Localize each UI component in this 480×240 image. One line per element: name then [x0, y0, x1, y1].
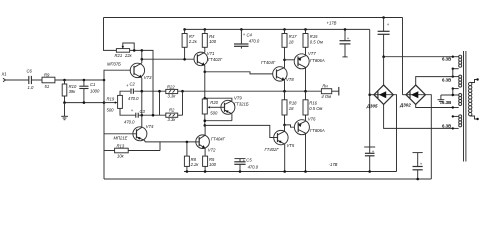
node D305 left: [368, 93, 371, 96]
wire center tap to ground: [441, 94, 453, 96]
svg-text:VT8: VT8: [286, 77, 294, 82]
svg-text:МП37Б: МП37Б: [107, 62, 121, 67]
wire VT3 collector to VT1 base: [142, 58, 194, 60]
winding W3 6.3V: [442, 94, 462, 109]
potentiometer R19: [104, 95, 122, 112]
node upper wire cap383: [382, 16, 385, 19]
resistor R13: [104, 142, 160, 159]
svg-text:VT6: VT6: [308, 116, 316, 121]
output bus wire: [120, 91, 321, 95]
svg-text:4 Ом: 4 Ом: [321, 94, 331, 99]
node VT2 collector: [204, 124, 207, 127]
wire VT1 emitter down to bias network: [204, 72, 206, 99]
ground transformer: [438, 95, 445, 103]
node R4 top: [204, 28, 207, 31]
svg-text:ГТ321Б: ГТ321Б: [234, 102, 249, 107]
transistor VT7: [294, 51, 325, 91]
wire upper rail: [104, 17, 403, 19]
svg-text:500: 500: [210, 110, 218, 115]
wire +17 rail end down: [369, 29, 371, 147]
svg-text:0.5 Ом: 0.5 Ом: [309, 106, 322, 111]
wire cap383 down to bridge D305: [383, 57, 385, 86]
transistor VT8: [273, 60, 295, 91]
capacitor C4: [234, 29, 260, 48]
node VT3 collector base junction: [141, 58, 144, 61]
node VT7 collector bus: [304, 90, 307, 93]
svg-text:VT2: VT2: [208, 147, 216, 152]
svg-text:VT5: VT5: [287, 143, 295, 148]
svg-text:R9: R9: [44, 72, 50, 77]
wire C6 to R9: [31, 79, 42, 81]
+17V rail: [185, 28, 370, 30]
node R7 bottom: [183, 58, 186, 61]
svg-text:R16: R16: [309, 100, 317, 105]
node R21 wiper: [133, 49, 136, 52]
wire R19 bottom to C3: [120, 108, 136, 115]
svg-text:C6: C6: [27, 69, 33, 74]
svg-text:2.2к: 2.2к: [188, 39, 198, 44]
potentiometer R20: [202, 99, 221, 115]
node VT7 base: [283, 59, 286, 62]
svg-text:R20: R20: [210, 100, 218, 105]
wire VT4 emitter to VT2 base: [145, 141, 196, 143]
node VT6 base: [283, 124, 286, 127]
wire D302 bottom to winding3: [416, 104, 453, 107]
node R20 bottom: [204, 119, 207, 122]
svg-text:Rн: Rн: [322, 83, 328, 88]
node C1 bottom: [83, 101, 86, 104]
node cap369 rail: [368, 170, 371, 173]
svg-text:C5: C5: [246, 157, 252, 162]
resistor R17: [282, 29, 297, 59]
wire R9 to input node: [55, 79, 104, 81]
svg-text:18: 18: [289, 106, 294, 111]
svg-text:Д305: Д305: [366, 103, 378, 108]
potentiometer R21: [115, 43, 135, 58]
svg-text:0.5 Ом: 0.5 Ом: [310, 39, 323, 44]
node VT5 emitter rail: [283, 170, 286, 173]
transistor VT3: [107, 50, 152, 91]
svg-text:6.3В: 6.3В: [442, 124, 451, 129]
svg-text:ГТ806А: ГТ806А: [310, 58, 325, 63]
svg-text:22к: 22к: [124, 53, 133, 58]
resistor R15: [303, 29, 323, 55]
svg-text:VT1: VT1: [207, 51, 215, 56]
resistor Rn load: [321, 83, 338, 99]
svg-text:VT3: VT3: [144, 75, 152, 80]
capacitor C1: [79, 79, 100, 103]
transistor VT5: [265, 125, 295, 172]
resistor R18: [282, 91, 297, 125]
svg-text:VT7: VT7: [308, 51, 316, 56]
transistor VT6: [294, 116, 324, 171]
svg-text:1.0: 1.0: [28, 85, 34, 90]
wire R21 right down to C3 node: [130, 50, 153, 115]
svg-text:10к: 10к: [117, 154, 125, 159]
svg-text:МП21Е: МП21Е: [114, 135, 128, 140]
wire VT1 emitter to VT8 base: [205, 72, 273, 74]
svg-text:X1: X1: [1, 72, 7, 77]
node VT3 collector top: [141, 49, 144, 52]
node input to vertical: [103, 79, 106, 82]
node C3 junction: [141, 114, 144, 117]
wire D302 right to loop: [425, 95, 431, 179]
wire W2 bottom to W3 top junction: [452, 89, 454, 95]
svg-text:39к: 39к: [69, 89, 77, 94]
svg-text:ГТ402Г: ГТ402Г: [208, 57, 223, 62]
wire VT6 base: [285, 125, 295, 127]
resistor R4: [202, 29, 216, 52]
node R21 leg junction: [152, 114, 155, 117]
capacitor C2: [126, 81, 139, 101]
svg-text:R22: R22: [167, 84, 175, 89]
node R8 bottom rail: [186, 170, 189, 173]
svg-text:R21: R21: [115, 53, 123, 58]
node cap417 loop: [416, 178, 419, 181]
svg-text:R13: R13: [117, 143, 125, 148]
capacitor top x383: [378, 18, 390, 57]
wire input to C6: [6, 79, 29, 81]
-17V rail: [184, 171, 397, 173]
node R10 bottom: [63, 101, 66, 104]
wire cap383 to winding1: [384, 56, 453, 58]
wire C3 to R2: [138, 114, 166, 116]
transistor VT1: [194, 51, 223, 72]
wire D305 bottom to winding4: [384, 104, 453, 128]
winding W2 6.3V: [442, 75, 462, 90]
transistor VT4: [104, 115, 154, 142]
svg-text:R15: R15: [310, 34, 318, 39]
wire D302 top to winding junction: [416, 77, 453, 85]
svg-text:R17: R17: [289, 34, 297, 39]
svg-text:470.0: 470.0: [249, 39, 260, 44]
node input junction: [63, 79, 66, 82]
wire to VT5 base: [205, 125, 274, 137]
node VT1 emitter: [204, 71, 207, 74]
svg-text:470.0: 470.0: [128, 96, 139, 101]
svg-text:470.0: 470.0: [124, 120, 135, 125]
svg-text:-17В: -17В: [329, 162, 338, 167]
svg-text:ГТ402Г: ГТ402Г: [265, 147, 280, 152]
connector X1: [1, 72, 7, 82]
bridge rectifier D305: [366, 85, 394, 108]
capacitor C3: [124, 108, 146, 124]
wire bottom input: [65, 102, 105, 104]
svg-text:C1: C1: [90, 82, 95, 87]
node VT3 emitter bus: [141, 90, 144, 93]
node cap345 rail: [344, 28, 347, 31]
bridge rectifier D302: [399, 85, 425, 108]
node VT8 emitter bus: [283, 90, 286, 93]
node R22 left: [158, 90, 161, 93]
svg-text:+17В: +17В: [327, 21, 337, 26]
ground: [61, 103, 68, 120]
resistor R8: [184, 142, 199, 172]
winding W4 6.3V: [442, 115, 462, 130]
transformer core: [464, 51, 466, 162]
svg-text:1000: 1000: [90, 89, 100, 94]
svg-text:VT9: VT9: [234, 96, 242, 101]
svg-text:ГТ806А: ГТ806А: [310, 128, 325, 133]
node R20 top: [204, 97, 207, 100]
svg-text:6.3В: 6.3В: [442, 100, 451, 105]
wire VT9 emitter to R20 bottom: [205, 120, 232, 122]
node cap383 junction: [382, 55, 385, 58]
svg-text:51: 51: [45, 84, 50, 89]
feedback loop wire: [104, 178, 431, 180]
wire top-left vertical to R21: [104, 18, 117, 51]
wire VT7 base: [285, 59, 295, 61]
svg-text:R2: R2: [169, 107, 175, 112]
node R15 top: [304, 28, 307, 31]
wire bias top to VT9 collector: [205, 98, 232, 101]
resistor R2: [166, 91, 183, 122]
node R17 top: [283, 28, 286, 31]
svg-text:100: 100: [209, 162, 217, 167]
svg-text:3.3к: 3.3к: [168, 117, 177, 122]
svg-text:ГТ404Г: ГТ404Г: [211, 137, 226, 142]
node VT6 collector rail: [304, 170, 307, 173]
svg-text:6.3В: 6.3В: [442, 77, 451, 82]
svg-text:470.0: 470.0: [248, 164, 259, 169]
svg-text:C4: C4: [247, 32, 253, 37]
svg-text:R18: R18: [289, 100, 297, 105]
capacitor on loop x417: [413, 153, 423, 179]
capacitor on +17 rail x345: [340, 29, 351, 57]
svg-text:VT4: VT4: [146, 124, 154, 129]
node R22 right: [181, 90, 184, 93]
resistor R5: [203, 156, 217, 171]
resistor R9: [42, 72, 55, 89]
wire VT3 base: [103, 70, 105, 179]
svg-text:C3: C3: [140, 109, 146, 114]
svg-text:100: 100: [209, 39, 217, 44]
svg-text:C2: C2: [130, 81, 136, 86]
wire upper rail end down to D302: [402, 18, 404, 95]
resistor R22: [160, 84, 178, 115]
winding W1 6.3V: [442, 55, 462, 70]
svg-text:ГТ404Г: ГТ404Г: [261, 60, 276, 65]
resistor R16: [303, 91, 323, 121]
wire D305 right to -17 rail end: [393, 95, 396, 172]
svg-text:6.3В: 6.3В: [442, 57, 451, 62]
svg-text:3.3к: 3.3к: [168, 94, 177, 99]
transistor VT2: [196, 125, 226, 156]
wire W1 bottom to W2 top junction: [452, 69, 454, 77]
svg-text:R19: R19: [107, 97, 115, 102]
node wiper junction: [103, 101, 106, 104]
node C4 top: [240, 28, 243, 31]
transistor VT9: [221, 96, 249, 121]
node R7 top: [183, 28, 186, 31]
node R8 top: [186, 141, 189, 144]
resistor R7: [182, 29, 198, 59]
node center tap: [452, 94, 454, 96]
node R5 bottom rail: [204, 170, 207, 173]
svg-text:2.2к: 2.2к: [190, 162, 200, 167]
wire VT3 emitter to VT4 collector: [141, 91, 143, 115]
primary winding: [469, 78, 479, 120]
svg-text:Д302: Д302: [399, 103, 411, 108]
svg-text:500: 500: [107, 108, 115, 113]
capacitor C on -17 rail x369: [364, 147, 375, 172]
node C5 bottom rail: [239, 170, 242, 173]
capacitor C5: [234, 157, 258, 171]
svg-text:18: 18: [289, 39, 294, 44]
capacitor C6: [27, 69, 34, 91]
resistor R10: [62, 80, 77, 103]
